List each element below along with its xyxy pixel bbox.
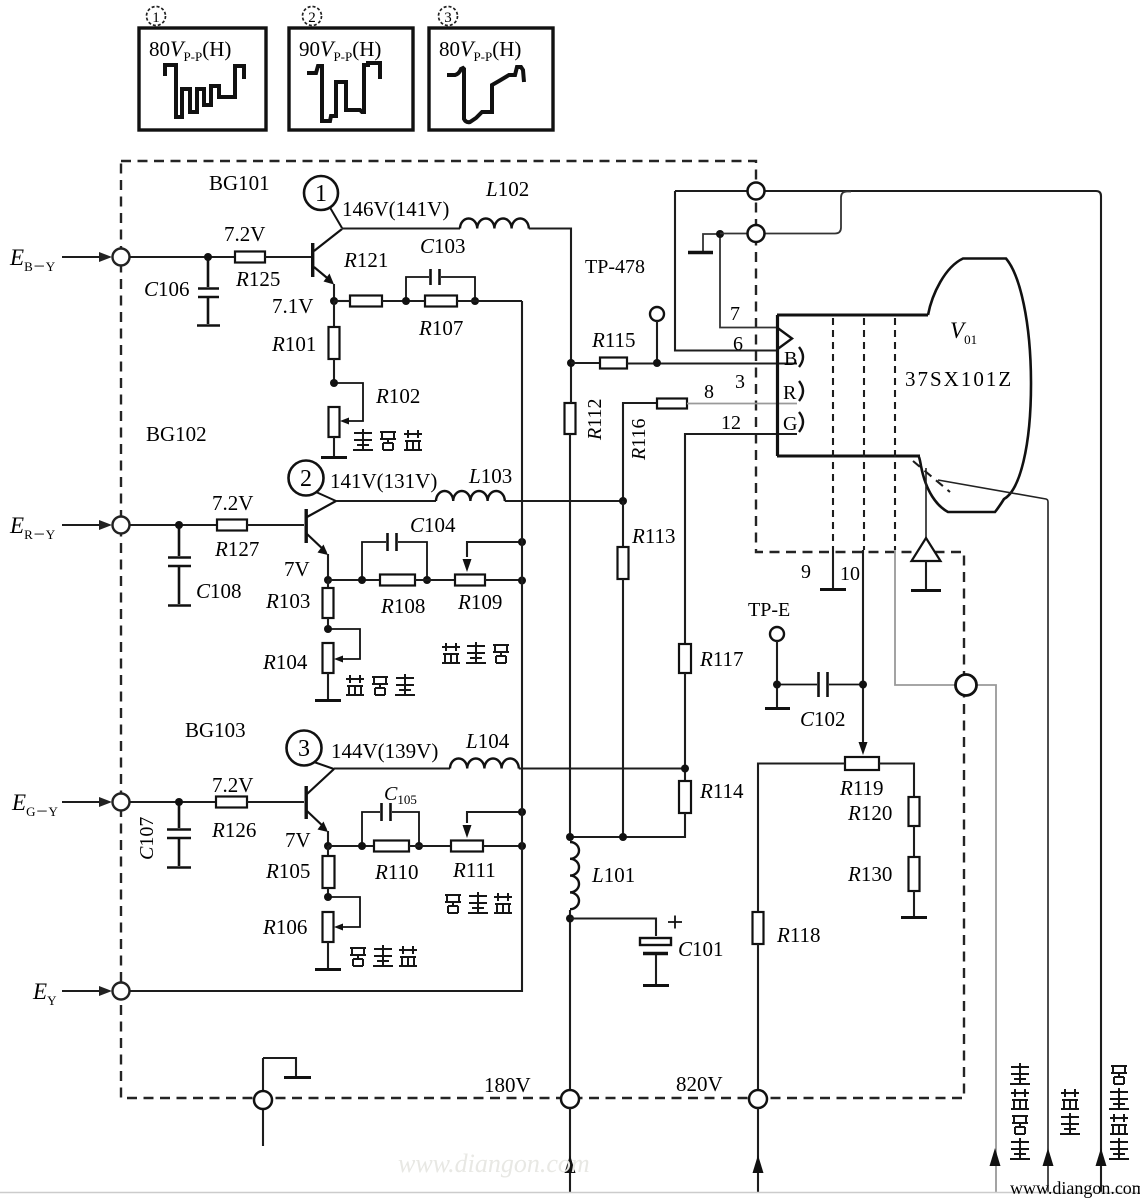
- node wire B junction: [716, 230, 724, 238]
- resistor R101: [329, 301, 340, 383]
- label blue-cutoff: [353, 429, 422, 450]
- capacitor C102: [777, 672, 863, 697]
- E-Y rail wire: [130, 301, 523, 991]
- wire R125 to base: [265, 256, 311, 258]
- resistor R105: [323, 846, 335, 897]
- svg-text:7.2V: 7.2V: [224, 222, 265, 246]
- heater filament symbol: [777, 328, 792, 350]
- svg-text:37SX101Z: 37SX101Z: [905, 367, 1013, 391]
- wire R109 to rail: [485, 579, 522, 581]
- node at C106 tap: [204, 253, 212, 261]
- emitter node dot: [330, 297, 338, 305]
- resistor R120: [909, 797, 920, 857]
- potentiometer R106: [315, 897, 360, 970]
- resistor R108: [380, 575, 415, 586]
- input arrow E B-Y: [62, 252, 112, 262]
- resistor R110: [374, 841, 409, 852]
- svg-text:146V(141V): 146V(141V): [342, 197, 449, 221]
- resistor R103: [323, 580, 334, 629]
- svg-text:www.diangon.com: www.diangon.com: [1010, 1178, 1140, 1198]
- bottom hairline: [0, 1192, 1140, 1194]
- svg-text:R118: R118: [776, 923, 821, 947]
- inductor L102: [460, 219, 529, 229]
- node R115 tap: [567, 359, 575, 367]
- svg-text:www.diangon.com: www.diangon.com: [398, 1149, 590, 1178]
- label green-drive: [445, 892, 512, 913]
- svg-text:L101: L101: [591, 863, 635, 887]
- wire emitter to R108: [328, 579, 380, 581]
- capacitor C107: [167, 802, 191, 868]
- resistor R125: [235, 252, 265, 263]
- svg-text:1: 1: [315, 181, 327, 207]
- svg-text:TP-478: TP-478: [585, 256, 645, 278]
- spark gap arrestor: [911, 468, 941, 591]
- node rail R111: [518, 842, 526, 850]
- node R113 bottom rail: [619, 833, 627, 841]
- svg-text:9: 9: [801, 561, 811, 583]
- svg-text:6: 6: [733, 333, 743, 355]
- svg-text:3: 3: [444, 10, 452, 26]
- svg-text:7.1V: 7.1V: [272, 294, 313, 318]
- resistor R126: [216, 797, 247, 808]
- collector wire 141V: [336, 500, 436, 502]
- input terminal circle E R-Y: [113, 517, 130, 534]
- svg-text:L104: L104: [465, 729, 510, 753]
- focus lead from connector to bottom: [977, 685, 996, 1192]
- node C104 left: [358, 576, 366, 584]
- input arrow E Y: [62, 986, 112, 996]
- collector wire 144V: [334, 767, 450, 769]
- waveform marker 2 circled label: [303, 7, 322, 27]
- resistor R116: [623, 399, 797, 502]
- grid 10 lead down to R119: [862, 550, 864, 744]
- wire input to base: [130, 524, 218, 526]
- potentiometer R102: [321, 383, 363, 458]
- svg-text:B: B: [784, 348, 797, 370]
- svg-text:L102: L102: [485, 177, 529, 201]
- capacitor C104 parallel loop: [362, 533, 427, 580]
- wire B through connector 2 with jog: [720, 192, 851, 234]
- node C105 right: [415, 842, 423, 850]
- svg-text:C106: C106: [144, 277, 190, 301]
- grid 9 lead with chassis bar: [820, 550, 846, 590]
- waveform 3 trace: [447, 67, 524, 122]
- wire R126 to base: [247, 801, 304, 803]
- svg-text:7.2V: 7.2V: [212, 491, 253, 515]
- anode contact dashes: [913, 461, 950, 492]
- svg-text:R130: R130: [847, 862, 892, 886]
- label high voltage vertical: [1060, 1089, 1080, 1134]
- board edge terminal circle 2: [748, 225, 765, 242]
- bottom stub terminal with chassis hook: [254, 1058, 311, 1146]
- resistor R130: [901, 857, 927, 918]
- input arrow E G-Y: [62, 797, 112, 807]
- svg-text:144V(139V): 144V(139V): [331, 739, 438, 763]
- svg-text:2: 2: [308, 10, 316, 26]
- svg-text:C101: C101: [678, 937, 724, 961]
- svg-text:BG102: BG102: [146, 422, 207, 446]
- capacitor C106: [197, 257, 220, 326]
- wire L104 to R114 node: [519, 767, 684, 769]
- resistor R107: [425, 296, 457, 307]
- waveform 2 trace: [307, 63, 380, 121]
- node C102 to grid10 line: [859, 681, 867, 689]
- svg-text:R103: R103: [265, 589, 310, 613]
- board dashed outline: [121, 161, 964, 1098]
- wire L103 to R113 node: [505, 500, 623, 502]
- resistor R115: [571, 358, 797, 369]
- wire input to base network: [130, 256, 236, 258]
- svg-text:R104: R104: [262, 650, 308, 674]
- cathode B electrode: [784, 347, 803, 370]
- svg-text:R106: R106: [262, 915, 307, 939]
- label red-cutoff: [346, 674, 415, 695]
- node rail R109: [518, 577, 526, 585]
- wire to R109: [415, 579, 455, 581]
- cathode R electrode: [783, 381, 803, 404]
- wire emitter to R110: [328, 845, 374, 847]
- svg-text:7: 7: [730, 303, 740, 325]
- R111 wiper from rail: [463, 812, 523, 838]
- resistor R118: [753, 912, 764, 1090]
- svg-text:141V(131V): 141V(131V): [330, 469, 437, 493]
- node rail wiper2: [518, 538, 526, 546]
- svg-text:R125: R125: [235, 267, 280, 291]
- wire to R111: [409, 845, 451, 847]
- node TP-E to C102: [773, 681, 781, 689]
- waveform pointer circle 2: [289, 461, 337, 502]
- label filament voltage vertical: [1109, 1066, 1129, 1159]
- node rail wiper3: [518, 808, 526, 816]
- svg-text:BG101: BG101: [209, 171, 270, 195]
- svg-text:C102: C102: [800, 707, 846, 731]
- CRT grid dashed electrodes: [833, 318, 895, 550]
- potentiometer R111: [451, 841, 483, 852]
- node above R104: [324, 625, 332, 633]
- svg-text:R115: R115: [591, 328, 636, 352]
- waveform marker 3 circled label: [439, 7, 458, 27]
- filament top wire through connector: [675, 191, 1101, 1192]
- input terminal circle E B-Y: [113, 249, 130, 266]
- capacitor C105 parallel loop: [362, 803, 419, 846]
- 820V feed line with arrow: [753, 1108, 764, 1192]
- node before R107: [402, 297, 410, 305]
- node L103 to R113: [619, 497, 627, 505]
- heater wire A from pin6: [675, 191, 777, 351]
- collector wire 146V: [342, 227, 460, 229]
- svg-text:2: 2: [300, 466, 312, 492]
- capacitor C101 electrolytic: [570, 916, 682, 986]
- capacitor C103 parallel loop: [406, 269, 475, 301]
- wire: [334, 300, 350, 302]
- label green-cutoff: [350, 945, 417, 966]
- svg-text:R113: R113: [631, 524, 676, 548]
- svg-text:7V: 7V: [285, 828, 311, 852]
- waveform box 2: [289, 28, 413, 130]
- emitter series resistor: [350, 296, 382, 307]
- capacitor C108: [168, 525, 191, 606]
- svg-text:R127: R127: [214, 537, 259, 561]
- potentiometer R104: [315, 629, 360, 701]
- EHT feed arrow: [1043, 1148, 1054, 1166]
- svg-text:C108: C108: [196, 579, 242, 603]
- svg-text:R105: R105: [265, 859, 310, 883]
- waveform pointer circle 3: [287, 731, 335, 770]
- emitter node dot: [324, 842, 332, 850]
- waveform marker 1 circled label: [147, 7, 166, 27]
- svg-text:10: 10: [840, 563, 860, 585]
- 180V feed line with arrow: [565, 1108, 576, 1192]
- wire B to ground: [703, 234, 720, 251]
- cathode G electrode: [783, 412, 803, 435]
- svg-text:8: 8: [704, 381, 714, 403]
- wire R107 to E-Y rail: [457, 300, 522, 302]
- svg-text:R102: R102: [375, 384, 420, 408]
- potentiometer R109: [455, 575, 485, 586]
- transistor BG102: [305, 501, 337, 580]
- resistor R113: [618, 501, 629, 837]
- resistor R112: [565, 363, 576, 837]
- inductor L103: [436, 491, 505, 501]
- svg-text:1: 1: [152, 10, 160, 26]
- waveform pointer circle 1: [304, 176, 342, 228]
- wire input to base: [130, 801, 217, 803]
- input arrow E R-Y: [62, 520, 112, 530]
- CRT V01 outline: [777, 259, 1031, 513]
- filament feed arrow: [1096, 1148, 1107, 1166]
- svg-text:7.2V: 7.2V: [212, 773, 253, 797]
- svg-text:R110: R110: [374, 860, 419, 884]
- svg-text:R117: R117: [699, 647, 744, 671]
- resistor R114: [570, 781, 691, 837]
- emitter node dot: [324, 576, 332, 584]
- wire: [382, 300, 425, 302]
- wire R127 to base: [247, 524, 304, 526]
- svg-text:180V: 180V: [484, 1073, 531, 1097]
- wire R111 to rail: [483, 845, 522, 847]
- chassis ground bar: [688, 251, 713, 254]
- svg-text:R126: R126: [211, 818, 256, 842]
- label red-drive: [442, 642, 509, 663]
- label focus voltage vertical: [1010, 1063, 1030, 1159]
- svg-text:3: 3: [735, 371, 745, 393]
- svg-text:R108: R108: [380, 594, 425, 618]
- svg-text:R: R: [783, 382, 797, 404]
- inductor L101: [570, 842, 579, 909]
- svg-text:C107: C107: [136, 817, 158, 860]
- inductor L104: [450, 758, 519, 768]
- svg-text:R109: R109: [457, 590, 502, 614]
- node 144V to R114: [681, 765, 689, 773]
- wire L101 to bottom terminal: [569, 910, 571, 1090]
- 180V terminal circle: [561, 1090, 579, 1108]
- svg-text:R101: R101: [271, 332, 316, 356]
- node C105 left: [358, 842, 366, 850]
- focus lead down: [895, 550, 955, 685]
- node R112 line rail: [566, 833, 574, 841]
- svg-text:3: 3: [298, 736, 310, 762]
- heater wire B from pin7: [720, 234, 777, 328]
- svg-text:R111: R111: [452, 858, 496, 882]
- focus connector circle: [956, 675, 977, 696]
- svg-text:R112: R112: [584, 399, 606, 441]
- svg-text:L103: L103: [468, 464, 512, 488]
- waveform box 3: [429, 28, 553, 130]
- node above R102: [330, 379, 338, 387]
- node after R107: [471, 297, 479, 305]
- svg-text:C103: C103: [420, 234, 466, 258]
- R109 wiper from rail: [463, 542, 523, 572]
- svg-text:R107: R107: [418, 316, 463, 340]
- node TP-478 on R115 wire: [653, 359, 661, 367]
- board edge terminal circle 1: [748, 183, 765, 200]
- focus feed arrow: [990, 1148, 1001, 1166]
- svg-text:R119: R119: [839, 776, 884, 800]
- resistor R127: [217, 520, 247, 531]
- resistor R117: [679, 434, 797, 781]
- waveform 1 trace: [165, 65, 244, 117]
- svg-text:R120: R120: [847, 801, 892, 825]
- svg-text:R114: R114: [699, 779, 744, 803]
- svg-text:C104: C104: [410, 513, 456, 537]
- node C104 right: [423, 576, 431, 584]
- input terminal circle E Y: [113, 983, 130, 1000]
- svg-text:R116: R116: [628, 419, 650, 461]
- svg-text:G: G: [783, 413, 797, 435]
- svg-text:R121: R121: [343, 248, 388, 272]
- svg-text:TP-E: TP-E: [748, 599, 790, 621]
- node above R106: [324, 893, 332, 901]
- potentiometer R119: [758, 757, 914, 912]
- R119 wiper arrow: [859, 742, 868, 755]
- anode lead to EHT line: [938, 480, 1048, 1192]
- wire L102 to right corner: [529, 229, 571, 364]
- svg-text:7V: 7V: [284, 557, 310, 581]
- waveform box 1: [139, 28, 266, 130]
- svg-text:BG103: BG103: [185, 718, 246, 742]
- node at C107 tap: [175, 798, 183, 806]
- input terminal circle E G-Y: [113, 794, 130, 811]
- node at C108 tap: [175, 521, 183, 529]
- svg-text:12: 12: [721, 412, 741, 434]
- 820V terminal circle: [749, 1090, 767, 1108]
- node C101 tap: [566, 915, 574, 923]
- svg-text:820V: 820V: [676, 1072, 723, 1096]
